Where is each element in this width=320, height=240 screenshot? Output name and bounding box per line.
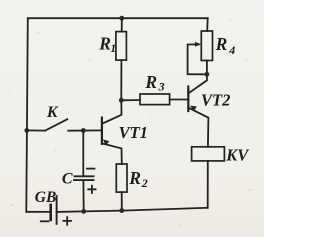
wire: R3 left lead [121,99,140,101]
wire: capacitor C bottom lead [82,181,84,212]
capacitor C plates [74,176,94,180]
polarity plus of C [88,186,95,193]
svg-text:R: R [128,168,141,188]
svg-text:2: 2 [141,176,148,190]
svg-text:3: 3 [158,79,165,93]
arrowhead of VT1 emitter (PNP) [103,139,110,145]
wire: VT1 collector [103,100,122,123]
svg-text:VT2: VT2 [201,91,230,110]
wire: R4 bottom lead [206,61,208,75]
svg-text:R: R [98,33,111,53]
relay KV [192,147,225,161]
svg-text:VT1: VT1 [119,123,148,142]
wire: VT1 base [68,129,102,131]
svg-text:K: K [46,104,59,121]
wire: R4 wiper connection [188,44,207,74]
transistor VT1 [101,118,103,144]
wire: VT2 collector [189,74,207,94]
arrowhead of R4 wiper [195,42,201,47]
wire: VT2 emitter to KV [189,108,209,147]
node at R4 bottom junction [205,72,210,77]
svg-text:R: R [144,72,157,92]
svg-text:4: 4 [228,43,235,57]
resistor R1 [116,32,127,60]
polarity minus of C [87,168,94,170]
wire: R1 top lead [121,18,123,31]
svg-text:C: C [62,171,73,188]
polarity minus of GB [41,220,49,222]
wire: top rail [28,17,208,19]
faint paper speckles [9,11,251,231]
wire: VT1 emitter to R2 [102,144,122,165]
node at R1 top [119,16,124,21]
arrowhead of VT2 emitter (PNP) [190,106,197,112]
node at R2 bottom on bottom rail [119,208,124,213]
wire: R1 bottom lead [120,60,122,100]
svg-text:KV: KV [225,146,250,165]
switch K wire [27,129,45,131]
wire: R3 right lead to VT2 base [170,99,189,101]
svg-text:GB: GB [35,189,57,206]
wire: R2 bottom lead [121,192,123,211]
resistor R3 [140,94,170,105]
wire: left rail [26,18,28,212]
node at R3 left junction [119,98,124,103]
node at C bottom on bottom rail [81,209,86,214]
wire: bottom rail left segment [26,211,49,213]
resistor R2 [116,164,127,192]
svg-text:1: 1 [110,41,116,55]
wire: capacitor C top lead [82,131,84,176]
transistor VT2 [187,87,189,112]
node at switch K on left rail [24,128,29,133]
switch K blade [45,119,67,130]
battery GB [51,196,57,224]
node at C top [81,128,86,133]
wire: bottom rail right segment [57,208,208,212]
svg-text:R: R [215,34,228,54]
wire: KV bottom lead [207,161,209,208]
wire: R4 top lead [206,18,209,31]
polarity plus of GB [63,217,71,225]
resistor R4 [201,31,212,61]
